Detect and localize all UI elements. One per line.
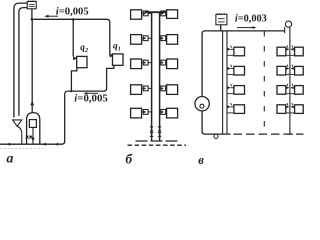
svg-text:а: а xyxy=(6,152,13,166)
node q2 return junction xyxy=(70,90,72,92)
svg-text:i=0,003: i=0,003 xyxy=(235,13,267,24)
radiator b-row2 left xyxy=(131,35,142,45)
radiator v-mid-row3 xyxy=(234,86,245,95)
valve b-row1 right xyxy=(161,11,166,16)
valve b-row3 left xyxy=(143,60,148,65)
radiator b-row3 left xyxy=(131,59,142,69)
wire pump outlet and bottom solid line xyxy=(202,111,230,134)
svg-text:i=0,005: i=0,005 xyxy=(56,7,89,18)
pump circle xyxy=(195,97,209,111)
air loop hook xyxy=(285,21,291,27)
wire boiler riser xyxy=(31,19,33,112)
radiator v-right-row4 left xyxy=(277,105,286,114)
wire riser q2 xyxy=(72,19,74,56)
riser pair right line (v middle) xyxy=(226,31,228,134)
wire q1 outlet, return main, drop and bottom line xyxy=(0,65,114,144)
riser right column (v) xyxy=(289,28,291,135)
valve b-row1 left xyxy=(143,11,148,16)
flow arrow left end of bottom line xyxy=(6,143,10,146)
riser pair left line (v middle) xyxy=(222,31,224,134)
wire funnel drain xyxy=(17,126,22,144)
wire overflow pipe inner (diagram a) xyxy=(19,8,27,116)
valve pair on left pipe (diagram b) xyxy=(150,126,154,128)
flow arrow bottom line mid xyxy=(42,143,46,146)
radiator v-right-row1 right xyxy=(295,47,304,56)
boiler firebox square xyxy=(29,120,36,128)
flow arrow bottom line right xyxy=(54,143,58,146)
riser right pipe (diagram b) xyxy=(159,12,161,141)
valve arrow v-mid-row2 xyxy=(227,67,231,70)
radiator v-right-row2 left xyxy=(277,66,286,75)
valve b-row4 right xyxy=(161,86,166,91)
svg-text:б: б xyxy=(125,152,133,166)
valve arrows v-right-row4 xyxy=(286,105,289,108)
wire v-right-row1 bottom stub xyxy=(286,54,295,56)
valve b-row2 right xyxy=(161,36,166,41)
wire b-row2 stubs xyxy=(142,37,167,39)
wire supply main and left drop (v) xyxy=(202,31,285,97)
svg-text:q2: q2 xyxy=(80,43,88,54)
center dashed partition line xyxy=(263,31,265,134)
floor line upper (diagram b) xyxy=(136,140,178,142)
valve pair on right pipe (diagram b) xyxy=(158,126,162,128)
valve b-row5 left xyxy=(143,110,148,115)
arrow into radiator q1 xyxy=(110,53,114,57)
radiator q1 xyxy=(113,54,124,65)
radiator v-right-row1 left xyxy=(277,47,286,56)
wire tank stub xyxy=(31,9,33,19)
radiator v-mid-row2 xyxy=(234,66,245,75)
radiator v-right-row4 right xyxy=(295,105,304,114)
wire b-row4 stubs xyxy=(142,87,167,89)
radiator b-row3 right xyxy=(167,59,178,69)
radiator b-row4 left xyxy=(131,85,142,95)
wire v-right-row3 bottom stub xyxy=(286,93,295,95)
node supply-riser junction xyxy=(72,18,75,21)
radiator v-right-row3 right xyxy=(295,86,304,95)
wire v-right-row2 bottom stub xyxy=(286,74,295,76)
radiator b-row5 right xyxy=(167,108,178,118)
slope arrow (v) xyxy=(237,27,253,29)
wire q2 outlet xyxy=(71,68,77,91)
radiator v-right-row2 right xyxy=(295,66,304,75)
flow arrow up on boiler riser xyxy=(30,101,34,106)
expansion tank (diagram v) xyxy=(216,14,227,24)
radiator b-row2 right xyxy=(167,35,178,45)
top header (diagram b) xyxy=(145,11,166,13)
wire v-right-row4 bottom stub xyxy=(286,112,295,114)
valve arrows v-right-row2 xyxy=(286,67,289,70)
valve arrow v-mid-row1 xyxy=(227,48,231,51)
riser left pipe (diagram b) xyxy=(151,12,153,141)
valve b-row4 left xyxy=(143,86,148,91)
valve arrows v-right-row1 xyxy=(286,48,289,51)
pump dot xyxy=(200,104,204,108)
floor line lower dashed (diagram b) xyxy=(128,144,187,146)
svg-text:в: в xyxy=(198,153,204,166)
wire b-row1 stubs xyxy=(142,12,167,14)
svg-text:q1: q1 xyxy=(113,42,121,53)
slope arrow top xyxy=(46,15,59,17)
wire overflow pipe outer (diagram a) xyxy=(14,3,27,117)
radiator q2 xyxy=(77,56,87,67)
valve b-row3 right xyxy=(161,60,166,65)
wire b-row5 stubs xyxy=(142,111,167,113)
wire v-mid-row2 bottom stub xyxy=(227,74,234,76)
wire v-mid-row4 bottom stub xyxy=(227,112,234,114)
wire supply main with drop to q1 xyxy=(32,19,110,55)
bottom dashed line (v) xyxy=(234,133,304,135)
boiler body xyxy=(27,113,40,145)
faint floor dotted line under a xyxy=(0,148,46,150)
expansion tank (diagram a) xyxy=(27,2,36,9)
valve arrows v-right-row3 xyxy=(286,86,289,89)
wire tank stub (v) xyxy=(220,25,222,31)
arrow into radiator q2 xyxy=(73,56,77,60)
radiator b-row5 left xyxy=(131,108,142,118)
valve arrow v-mid-row3 xyxy=(227,86,231,89)
valve b-row2 left xyxy=(143,36,148,41)
wire b-row3 stubs xyxy=(142,62,167,64)
wire v-mid-row3 bottom stub xyxy=(227,93,234,95)
radiator b-row1 right xyxy=(167,10,178,19)
valve b-row5 right xyxy=(161,110,166,115)
radiator v-mid-row1 xyxy=(234,47,245,56)
drain cross marks xyxy=(26,136,32,139)
radiator v-mid-row4 xyxy=(234,105,245,114)
radiator b-row4 right xyxy=(167,85,178,95)
funnel xyxy=(13,120,22,126)
node supply-tank junction xyxy=(31,18,34,21)
riser foot xyxy=(287,133,293,135)
drain circle on bottom line xyxy=(214,134,218,138)
slope arrow bottom xyxy=(87,92,99,94)
valve arrow v-mid-row4 xyxy=(227,105,231,108)
wire boiler bottom drop xyxy=(32,127,34,144)
svg-text:i=0,005: i=0,005 xyxy=(74,92,107,104)
wire supply end tick (v) xyxy=(284,27,286,33)
flow arrow down on boiler drop xyxy=(31,138,35,142)
radiator v-right-row3 left xyxy=(277,86,286,95)
wire v-mid-row1 bottom stub xyxy=(227,54,234,56)
radiator b-row1 left xyxy=(131,10,142,19)
